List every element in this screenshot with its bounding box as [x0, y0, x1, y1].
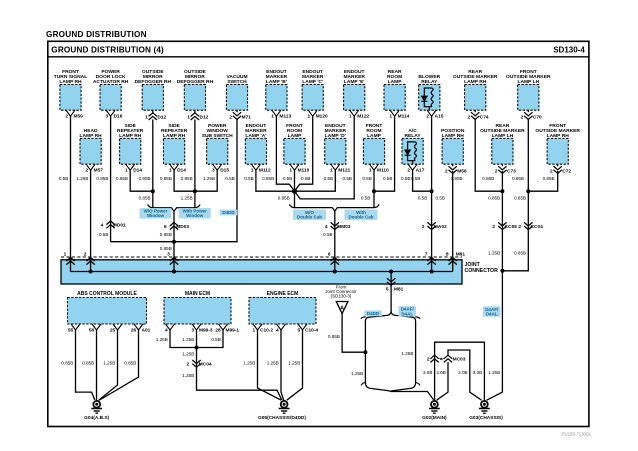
svg-text:C10-4: C10-4 — [305, 328, 318, 334]
svg-text:5: 5 — [298, 328, 301, 334]
svg-text:MA02: MA02 — [434, 224, 447, 230]
svg-text:M122: M122 — [357, 113, 369, 119]
svg-text:28: 28 — [215, 328, 221, 334]
svg-text:D15: D15 — [220, 167, 229, 173]
ground G05 chassis D4DD — [281, 401, 288, 408]
option label without power window — [140, 208, 172, 218]
svg-text:0.85B: 0.85B — [116, 176, 128, 181]
svg-text:JOINT: JOINT — [465, 262, 481, 268]
wire main ECM pin4 merge — [170, 330, 197, 348]
svg-text:M114: M114 — [398, 113, 410, 119]
option label D4AF D4AL marker ground — [483, 306, 501, 316]
svg-text:LAMP LH: LAMP LH — [517, 79, 539, 85]
junction A15 A17 — [430, 189, 434, 193]
svg-text:LAMP 'C': LAMP 'C' — [302, 79, 323, 85]
svg-text:LAMP 'B': LAMP 'B' — [266, 79, 287, 85]
junction main ECM merge — [195, 346, 199, 350]
wire D14b merge into D12b — [174, 170, 195, 191]
svg-text:DEFOGGER RH: DEFOGGER RH — [135, 79, 172, 85]
wire engine ECM pin5 to G05 — [287, 330, 303, 400]
svg-text:MM03: MM03 — [337, 224, 351, 230]
svg-text:LAMP RH: LAMP RH — [59, 79, 82, 85]
relay A17 A/C — [402, 138, 423, 164]
svg-text:0.85B: 0.85B — [514, 195, 526, 200]
wire ABS pin56 to G04 — [96, 330, 98, 401]
svg-text:2: 2 — [187, 362, 190, 368]
wire ground strap inner — [448, 350, 482, 400]
svg-text:0.85B: 0.85B — [124, 360, 136, 365]
svg-text:4: 4 — [325, 224, 328, 230]
svg-text:1.25B: 1.25B — [488, 370, 500, 375]
wire MM03 column to bar pin 6 — [334, 211, 336, 260]
connector MC03 inline — [430, 355, 438, 362]
svg-text:6: 6 — [164, 224, 167, 230]
lamp M110 front room — [284, 138, 305, 164]
junction MD03 collector — [172, 240, 176, 244]
svg-text:LAMP RH: LAMP RH — [464, 79, 487, 85]
svg-text:1.25B: 1.25B — [488, 250, 500, 255]
svg-text:4: 4 — [165, 328, 168, 334]
svg-text:SUB SWITCH: SUB SWITCH — [202, 133, 233, 139]
svg-text:MD01: MD01 — [113, 223, 126, 229]
lamp M57 head lamp RH — [80, 138, 101, 164]
lamp M113 end outline marker B — [266, 85, 287, 111]
relay A15 blower — [419, 85, 440, 111]
lamp M120 end outline marker C — [302, 85, 323, 111]
option label without double cab — [293, 210, 326, 220]
wire A17 merge into A15 — [413, 170, 432, 191]
svg-text:2: 2 — [427, 356, 430, 362]
svg-text:0.85B: 0.85B — [488, 195, 500, 200]
svg-text:1: 1 — [145, 114, 148, 120]
svg-text:0.5B: 0.5B — [323, 232, 332, 237]
svg-text:1.25B: 1.25B — [288, 360, 300, 365]
svg-text:G03(CHASSIS): G03(CHASSIS) — [469, 415, 503, 421]
svg-text:56: 56 — [89, 328, 95, 334]
svg-text:(SD130-3): (SD130-3) — [331, 294, 352, 299]
svg-text:M121: M121 — [338, 167, 350, 173]
svg-text:2.0B: 2.0B — [436, 370, 445, 375]
svg-text:LAMP RH: LAMP RH — [442, 133, 465, 139]
wire M113 inner merge — [276, 116, 294, 191]
svg-text:1.25B: 1.25B — [103, 360, 115, 365]
header band — [48, 56, 589, 58]
svg-text:M71: M71 — [242, 114, 252, 120]
svg-text:0.5B: 0.5B — [59, 176, 68, 181]
lamp C70 front outside marker LH — [518, 85, 539, 111]
wire M120 inner merge — [295, 116, 313, 191]
wire D4DD branch down — [364, 322, 366, 384]
connector MC04 inline — [192, 360, 200, 367]
svg-text:25: 25 — [110, 328, 116, 334]
svg-text:1: 1 — [187, 114, 190, 120]
svg-text:2: 2 — [84, 252, 87, 258]
svg-text:1: 1 — [308, 113, 311, 119]
lamp D14 side repeater RH — [120, 138, 141, 164]
wire M110b down to double cab brace — [373, 170, 375, 208]
junction triangle feed — [363, 350, 367, 354]
svg-text:1: 1 — [169, 167, 172, 173]
lamp M121 end outline marker D — [325, 138, 346, 164]
wire MD03 column — [173, 211, 175, 260]
svg-text:5: 5 — [386, 287, 389, 293]
wire C70 column down merge into C73 column — [502, 119, 528, 271]
svg-text:A17: A17 — [416, 167, 425, 173]
wire M114 merge into M110b — [374, 116, 395, 191]
outer frame — [48, 41, 589, 426]
svg-text:M112: M112 — [259, 167, 271, 173]
option label with power window — [179, 208, 211, 218]
joint connector output pin 5 — [390, 272, 392, 285]
svg-text:EV15D 7130GL: EV15D 7130GL — [562, 432, 592, 437]
svg-text:1.25B: 1.25B — [401, 351, 413, 356]
switch M71 vacuum — [226, 85, 247, 111]
svg-text:1: 1 — [289, 167, 292, 173]
svg-text:M99-3: M99-3 — [199, 328, 213, 334]
svg-text:1: 1 — [125, 167, 128, 173]
svg-text:0.85B: 0.85B — [278, 195, 290, 200]
svg-text:4: 4 — [440, 356, 443, 362]
svg-text:MD03: MD03 — [176, 224, 189, 230]
wire main ECM column through MC04 to G05 — [197, 330, 282, 400]
svg-text:2.0B: 2.0B — [458, 370, 467, 375]
fork split engine variants — [365, 311, 391, 322]
svg-text:MC04: MC04 — [199, 362, 212, 368]
svg-text:G05(CHASSIS/D4DD): G05(CHASSIS/D4DD) — [258, 415, 306, 421]
wire M121 merge left — [295, 170, 336, 191]
svg-text:MAIN ECM: MAIN ECM — [185, 291, 210, 297]
svg-text:M110: M110 — [298, 167, 310, 173]
connector CC05 inline — [498, 222, 506, 229]
svg-text:2: 2 — [492, 224, 495, 230]
ground G04 ABS — [93, 401, 100, 408]
wire M59 to joint connector pin 1 — [70, 116, 72, 260]
svg-text:M110: M110 — [377, 167, 389, 173]
svg-text:8: 8 — [446, 252, 449, 258]
svg-text:LAMP RH: LAMP RH — [163, 133, 186, 139]
defogger D12 outside mirror RH — [142, 85, 163, 111]
wire M112 merge right — [256, 170, 295, 191]
triangle reference A — [336, 302, 348, 314]
option label D4AF D4AL engine — [398, 306, 416, 316]
svg-text:SD130-4: SD130-4 — [553, 46, 585, 55]
svg-text:1.25B: 1.25B — [76, 176, 88, 181]
svg-text:CC04: CC04 — [531, 224, 544, 230]
svg-text:0.5B: 0.5B — [401, 176, 410, 181]
svg-text:D16: D16 — [114, 113, 123, 119]
svg-text:0.85B: 0.85B — [482, 176, 494, 181]
lamp M122 end outline marker E — [344, 85, 365, 111]
svg-text:3: 3 — [167, 252, 170, 258]
svg-text:GROUND DISTRIBUTION: GROUND DISTRIBUTION — [46, 30, 147, 39]
svg-text:1.25B: 1.25B — [351, 371, 363, 376]
wire M71 vacuum switch down then left — [111, 119, 237, 242]
svg-text:1: 1 — [64, 252, 67, 258]
lamp M112 end outline marker A — [245, 138, 266, 164]
option label with double cab — [345, 210, 378, 220]
svg-text:M58: M58 — [457, 168, 467, 174]
svg-text:0.5B: 0.5B — [436, 195, 445, 200]
svg-text:1.25B: 1.25B — [182, 352, 194, 357]
joint connector M81 dashed mating line — [61, 256, 462, 258]
svg-text:GROUND DISTRIBUTION (4): GROUND DISTRIBUTION (4) — [51, 46, 164, 55]
option label D4DD vacuum switch — [220, 210, 238, 216]
svg-text:ABS CONTROL MODULE: ABS CONTROL MODULE — [77, 291, 137, 297]
svg-text:1: 1 — [369, 167, 372, 173]
svg-text:0.85B: 0.85B — [514, 250, 526, 255]
svg-text:D12: D12 — [157, 114, 166, 120]
svg-text:3: 3 — [105, 113, 108, 119]
svg-text:1: 1 — [330, 167, 333, 173]
svg-text:2: 2 — [521, 114, 524, 120]
junction M110b M114 — [372, 189, 376, 193]
svg-text:2: 2 — [426, 113, 429, 119]
junction C70 C72 — [526, 189, 530, 193]
svg-text:0.5B: 0.5B — [225, 176, 234, 181]
svg-text:0.85B: 0.85B — [96, 176, 108, 181]
svg-text:G02(MAIN): G02(MAIN) — [422, 415, 447, 421]
svg-text:0.5B: 0.5B — [324, 176, 333, 181]
option brace double cab — [289, 204, 379, 211]
svg-text:0.85B: 0.85B — [262, 176, 274, 181]
svg-text:1: 1 — [251, 167, 254, 173]
svg-text:M99-1: M99-1 — [226, 328, 240, 334]
wire engine ECM pin1 to G05 — [258, 330, 282, 400]
svg-text:LAMP RH: LAMP RH — [119, 133, 142, 139]
svg-text:D4AL: D4AL — [401, 311, 413, 316]
lamp M58 position RH — [442, 138, 463, 164]
connector CC04 inline — [524, 222, 532, 229]
svg-text:2: 2 — [407, 167, 410, 173]
connector MD01 inline — [106, 221, 114, 228]
connector MM03 inline — [331, 222, 339, 229]
svg-text:LAMP LH: LAMP LH — [492, 133, 514, 139]
svg-text:0.85B: 0.85B — [160, 246, 172, 251]
svg-text:C70: C70 — [533, 114, 542, 120]
svg-text:0.85B: 0.85B — [160, 176, 172, 181]
svg-text:D14: D14 — [177, 167, 186, 173]
svg-text:A: A — [340, 305, 344, 311]
wire D14a merge into D12a — [130, 170, 153, 191]
svg-text:0.5B: 0.5B — [283, 176, 292, 181]
wire D16 through MD01 — [110, 116, 112, 242]
option brace power window — [148, 205, 201, 212]
svg-text:ACTUATOR RH: ACTUATOR RH — [93, 79, 129, 85]
svg-text:RELAY: RELAY — [405, 133, 422, 139]
wire D4AF branch down — [415, 322, 417, 384]
svg-text:Window: Window — [186, 213, 204, 218]
wire A15 relay column to bar pin 7 — [431, 116, 433, 260]
svg-text:M81: M81 — [456, 252, 466, 258]
svg-text:1.25B: 1.25B — [182, 373, 194, 378]
svg-text:0.5B: 0.5B — [244, 176, 253, 181]
svg-text:1.25B: 1.25B — [181, 195, 193, 200]
svg-text:M81: M81 — [394, 287, 404, 293]
svg-text:2: 2 — [65, 113, 68, 119]
svg-text:0.85B: 0.85B — [139, 176, 151, 181]
lamp M59 front turn signal RH — [60, 85, 81, 111]
svg-text:0.85B: 0.85B — [512, 176, 524, 181]
svg-text:0.5B: 0.5B — [383, 176, 392, 181]
wire ABS pin25 to G04 — [99, 330, 118, 401]
svg-text:D4DD: D4DD — [222, 210, 235, 215]
svg-text:C73: C73 — [507, 168, 516, 174]
svg-text:1: 1 — [253, 328, 256, 334]
svg-text:3: 3 — [192, 328, 195, 334]
svg-text:C74: C74 — [480, 114, 489, 120]
svg-text:LAMP: LAMP — [388, 79, 403, 85]
svg-text:M57: M57 — [94, 167, 104, 173]
svg-text:1: 1 — [389, 113, 392, 119]
lamp M110 front room second — [363, 138, 384, 164]
joint connector entry arrows — [66, 257, 74, 264]
svg-text:D4DD: D4DD — [367, 311, 380, 316]
svg-text:LAMP RH: LAMP RH — [79, 133, 102, 139]
svg-text:0.85B: 0.85B — [61, 360, 73, 365]
svg-text:1.25B: 1.25B — [243, 360, 255, 365]
defogger D12 outside mirror LH — [184, 85, 205, 111]
wire MC03 pin4 to G02 — [437, 362, 448, 400]
svg-text:2: 2 — [85, 167, 88, 173]
wire C73 column down — [501, 171, 503, 271]
joint connector internal bus — [71, 271, 453, 273]
svg-text:CC05: CC05 — [505, 224, 518, 230]
junction C73 C70 columns — [500, 269, 504, 273]
lamp D14 side repeater LH — [164, 138, 185, 164]
svg-text:1: 1 — [271, 113, 274, 119]
svg-text:0.85B: 0.85B — [139, 195, 151, 200]
fork merge to main ground — [365, 383, 433, 400]
svg-text:3: 3 — [212, 167, 215, 173]
svg-text:0.5B: 0.5B — [301, 176, 310, 181]
junction D12b D14b D15 — [193, 189, 197, 193]
wire marker lamps to ground G03 — [487, 271, 503, 400]
lamp C72 front outside marker RH — [547, 138, 568, 164]
svg-text:2: 2 — [518, 224, 521, 230]
wire ground strap outer — [435, 342, 485, 401]
wire D12a down to option brace — [152, 119, 154, 207]
svg-text:2: 2 — [229, 114, 232, 120]
svg-text:CONNECTOR: CONNECTOR — [465, 268, 499, 274]
svg-text:2: 2 — [468, 114, 471, 120]
wire ABS pin55 to G04 — [76, 330, 95, 400]
svg-text:LAMP: LAMP — [367, 133, 382, 139]
svg-text:3.0B: 3.0B — [473, 370, 482, 375]
svg-text:Double Cab: Double Cab — [348, 215, 373, 220]
wire C72 merge into C70 — [528, 171, 557, 191]
svg-text:4: 4 — [101, 223, 104, 229]
svg-text:1.25B: 1.25B — [203, 176, 215, 181]
connector MD03 inline — [170, 222, 178, 229]
svg-text:0.85B: 0.85B — [543, 176, 555, 181]
svg-text:0.5B: 0.5B — [99, 232, 108, 237]
junction C73 C74 — [500, 189, 504, 193]
svg-text:55: 55 — [68, 328, 74, 334]
lamp C74 rear outside marker RH — [465, 85, 486, 111]
joint connector M81 body — [61, 260, 462, 284]
svg-text:Window: Window — [147, 213, 165, 218]
svg-text:D12: D12 — [200, 114, 209, 120]
svg-text:A01: A01 — [142, 328, 151, 334]
svg-text:1.25B: 1.25B — [156, 337, 168, 342]
wire MC03 pin2 to G02 — [434, 362, 436, 401]
svg-text:LAMP RH: LAMP RH — [547, 133, 570, 139]
svg-text:0.85B: 0.85B — [82, 360, 94, 365]
svg-text:7: 7 — [425, 252, 428, 258]
ground G02 main — [431, 401, 438, 408]
svg-text:0.85B: 0.85B — [160, 232, 172, 237]
svg-text:1.25B: 1.25B — [182, 337, 194, 342]
svg-text:0.5B: 0.5B — [418, 195, 427, 200]
wire M122 lower merge — [295, 116, 355, 199]
wire C74 merge into C73 — [475, 119, 502, 191]
svg-text:1: 1 — [349, 113, 352, 119]
svg-text:C10-2: C10-2 — [260, 328, 273, 334]
svg-text:SWITCH: SWITCH — [227, 79, 247, 85]
option label D4DD engine — [364, 310, 382, 316]
svg-text:LAMP 'D': LAMP 'D' — [325, 133, 346, 139]
wire M57 to joint connector pin 2 — [90, 170, 92, 260]
svg-text:A15: A15 — [435, 113, 444, 119]
svg-text:0.85B: 0.85B — [181, 176, 193, 181]
svg-text:MC03: MC03 — [453, 356, 466, 362]
wire D12b down to option brace — [194, 119, 196, 207]
lamp M114 rear room — [384, 85, 405, 111]
svg-text:Double Cab: Double Cab — [297, 215, 322, 220]
svg-text:6: 6 — [328, 252, 331, 258]
svg-text:RELAY: RELAY — [421, 79, 438, 85]
svg-text:0.5B: 0.5B — [211, 337, 220, 342]
svg-text:0.5B: 0.5B — [343, 176, 352, 181]
svg-text:C72: C72 — [562, 168, 571, 174]
wire ABS pin26 to G04 — [100, 330, 139, 400]
svg-text:2: 2 — [445, 168, 448, 174]
svg-text:0.5B: 0.5B — [361, 195, 370, 200]
wire D15 merge into D12b — [195, 170, 217, 191]
lamp C73 rear outside marker LH — [492, 138, 513, 164]
wire pin5 M81 down — [390, 285, 392, 311]
junction D12a D14a — [151, 189, 155, 193]
actuator D16 power door lock RH — [100, 85, 121, 111]
svg-text:G04(A.B.S): G04(A.B.S) — [84, 415, 109, 421]
switch D15 power window sub — [207, 138, 228, 164]
svg-text:LAMP 'A': LAMP 'A' — [245, 133, 266, 139]
svg-text:4: 4 — [276, 328, 279, 334]
svg-text:3.0B: 3.0B — [423, 370, 432, 375]
wire M58 to bar pin 8 — [452, 171, 454, 260]
wire main ECM pin28 merge — [197, 330, 224, 348]
svg-text:ENGINE ECM: ENGINE ECM — [267, 291, 299, 297]
svg-text:1.25B: 1.25B — [267, 360, 279, 365]
svg-text:0.5B: 0.5B — [362, 176, 371, 181]
svg-text:DEFOGGER RH: DEFOGGER RH — [177, 79, 214, 85]
wire from triangle to D4DD branch — [342, 314, 365, 353]
wire M110a down to double cab brace — [294, 170, 296, 208]
svg-text:M113: M113 — [279, 113, 291, 119]
svg-text:LAMP 'E': LAMP 'E' — [344, 79, 365, 85]
svg-text:2: 2 — [422, 224, 425, 230]
connector MA02 inline — [427, 222, 435, 229]
svg-text:LAMP: LAMP — [288, 133, 303, 139]
svg-text:26: 26 — [131, 328, 137, 334]
ground G03 chassis — [481, 401, 488, 408]
svg-text:D14: D14 — [133, 167, 142, 173]
junction room lamp collector — [292, 189, 297, 194]
svg-text:2: 2 — [495, 168, 498, 174]
svg-text:M120: M120 — [316, 113, 328, 119]
svg-text:2: 2 — [550, 168, 553, 174]
wire engine ECM pin4 to G05 — [281, 330, 284, 401]
